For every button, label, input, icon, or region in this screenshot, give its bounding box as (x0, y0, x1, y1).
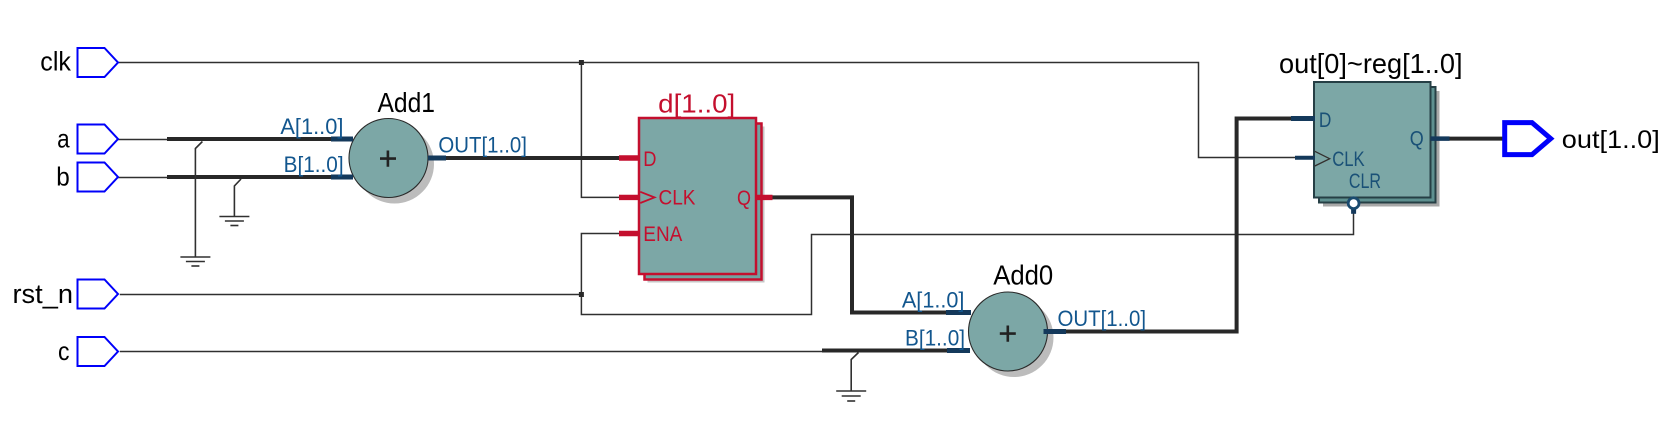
pin stub outreg CLR nub (1351, 209, 1356, 214)
svg-text:CLR: CLR (1349, 170, 1381, 193)
svg-text:ENA: ENA (643, 223, 682, 246)
wire: c net thin (120, 351, 822, 353)
wire: c bus thick to Add0 B (822, 349, 948, 353)
pin stub Add0 B (947, 348, 970, 353)
register out[0]~reg[1..0] body (1314, 82, 1431, 198)
node: rst_n junction dot (579, 292, 584, 297)
svg-text:OUT[1..0]: OUT[1..0] (438, 132, 527, 157)
wire: rst_n branch to out-reg CLR bubble (581, 212, 1353, 315)
wire: rst_n branch up to d-reg ENA (581, 234, 620, 295)
svg-text:clk: clk (40, 47, 71, 77)
input port c (78, 337, 119, 366)
svg-text:OUT[1..0]: OUT[1..0] (1058, 306, 1147, 331)
ground G2 (b bus) (219, 179, 249, 226)
svg-text:Q: Q (1410, 128, 1424, 151)
svg-text:rst_n: rst_n (13, 279, 74, 309)
pin stub Add0 OUT (1044, 329, 1067, 334)
register out[0]~reg[1..0] stacked copy (1319, 87, 1436, 203)
input port a (78, 125, 119, 154)
wire: a thin from port (118, 139, 168, 141)
svg-text:B[1..0]: B[1..0] (905, 325, 965, 350)
adder Add1 body (349, 119, 428, 198)
wire: Add0 OUT bus to out-reg D (1066, 119, 1294, 332)
svg-text:D: D (643, 148, 656, 171)
pin stub outreg D (1291, 116, 1315, 121)
svg-text:Add0: Add0 (993, 260, 1053, 291)
pin stub outreg CLK (1295, 156, 1315, 160)
pin stub d Q (756, 195, 773, 200)
pin stub Add0 A (946, 310, 971, 315)
svg-text:c: c (58, 336, 70, 366)
register d[1..0] stacked copy (645, 124, 762, 280)
svg-text:out[1..0]: out[1..0] (1562, 126, 1660, 154)
clock triangle d CLK (640, 192, 654, 203)
svg-text:B[1..0]: B[1..0] (284, 152, 344, 177)
pin stub Add1 A (331, 137, 353, 142)
pin stub d D (619, 155, 640, 160)
wire: Add1 OUT bus to d-reg D (446, 156, 621, 160)
adder Add0 shadow (975, 298, 1054, 377)
ground G3 (c bus) (836, 353, 866, 402)
wire: clk net horizontal to out-reg CLK (118, 63, 1296, 158)
pin stub outreg Q (1431, 136, 1450, 141)
wire: rst_n net horizontal (120, 294, 582, 296)
svg-text:b: b (56, 162, 70, 192)
svg-text:A[1..0]: A[1..0] (902, 287, 965, 312)
node: clk junction dot (579, 60, 584, 65)
svg-text:out[0]~reg[1..0]: out[0]~reg[1..0] (1279, 48, 1463, 79)
CLR bubble (1348, 198, 1359, 209)
input port rst_n (78, 280, 119, 309)
wire: b bus thick (167, 175, 350, 179)
adder Add1 shadow (355, 125, 434, 204)
svg-text:CLK: CLK (1332, 148, 1365, 171)
svg-text:d[1..0]: d[1..0] (658, 89, 735, 119)
svg-text:Q: Q (737, 187, 751, 210)
pin stub Add1 OUT (428, 156, 446, 161)
pin stub d CLK (619, 195, 640, 200)
svg-text:Add1: Add1 (378, 87, 436, 118)
svg-text:a: a (57, 124, 70, 154)
adder Add1 plus (380, 151, 396, 167)
adder Add0 body (969, 292, 1048, 371)
wire: d-reg Q bus to Add0 A (772, 197, 948, 312)
svg-text:D: D (1319, 109, 1332, 132)
pin stub d ENA (619, 231, 640, 236)
adder Add0 plus (1000, 326, 1016, 342)
input port clk (78, 48, 119, 77)
output port out[1..0] (1505, 123, 1551, 155)
register d[1..0] body (639, 118, 756, 274)
register out[0]~reg[1..0] shadow (1323, 91, 1440, 207)
register d[1..0] shadow (648, 127, 765, 283)
wire: b thin from port (118, 177, 168, 179)
input port b (78, 163, 119, 192)
wire: a bus thick (167, 137, 350, 141)
svg-text:CLK: CLK (659, 187, 696, 210)
wire: out-reg Q bus to out port (1450, 137, 1505, 141)
wire: clk branch down to d-reg CLK (581, 63, 620, 198)
pin stub Add1 B (331, 175, 353, 180)
clock triangle outreg CLK (1315, 151, 1330, 166)
svg-text:A[1..0]: A[1..0] (280, 114, 343, 139)
ground G1 (a bus) (180, 142, 210, 267)
